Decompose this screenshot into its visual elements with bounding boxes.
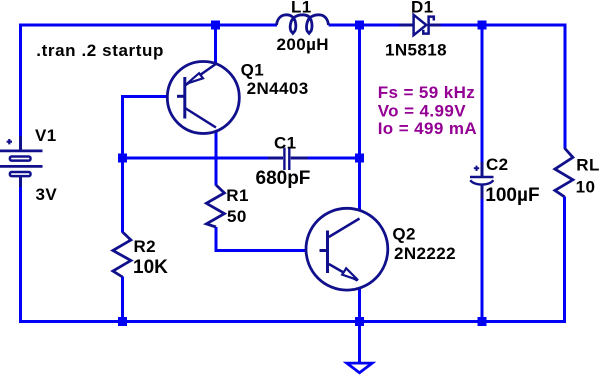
transistor Q2 (306, 208, 388, 290)
svg-text:200µH: 200µH (277, 35, 329, 54)
wire top rail right segment with right corner down to RL (439, 25, 565, 149)
svg-text:Vo = 4.99V: Vo = 4.99V (378, 102, 467, 121)
junction at Q1 emitter / top rail (211, 21, 220, 30)
battery V1 (0, 136, 43, 187)
diode D1 (400, 15, 441, 35)
svg-text:.tran .2 startup: .tran .2 startup (36, 41, 164, 60)
wire bottom rail (19, 320, 566, 323)
svg-text:Fs = 59 kHz: Fs = 59 kHz (378, 83, 475, 102)
junction at D1 cathode / C2 top (478, 21, 487, 30)
wire Q1 emitter to top rail (214, 25, 217, 65)
svg-text:10K: 10K (133, 257, 168, 278)
svg-text:V1: V1 (35, 126, 57, 145)
wire C2 branch lower (481, 198, 484, 322)
wire top rail between L1 and D1 (329, 24, 402, 27)
wire Q2 emitter down to bottom rail (358, 281, 361, 322)
svg-text:1N5818: 1N5818 (385, 41, 447, 60)
wire C2 branch upper (481, 25, 484, 163)
capacitor C2 (470, 162, 494, 199)
svg-text:D1: D1 (411, 0, 434, 17)
wire top rail left segment with left corner (21, 25, 278, 137)
svg-text:L1: L1 (291, 0, 312, 17)
svg-text:2N4403: 2N4403 (247, 79, 309, 98)
inductor L1 (277, 15, 329, 34)
junction at C2 bottom / bottom rail (478, 317, 487, 326)
svg-text:100µF: 100µF (485, 185, 539, 206)
junction at C1 right / switch node (355, 154, 364, 163)
wire switch node vertical L1/D1 to Q2 collector (358, 25, 361, 219)
svg-text:Q1: Q1 (241, 61, 264, 80)
svg-text:Io = 499 mA: Io = 499 mA (378, 119, 477, 138)
svg-text:C2: C2 (486, 155, 509, 174)
svg-text:R2: R2 (134, 237, 157, 256)
wire right branch below RL (563, 197, 566, 322)
svg-text:C1: C1 (274, 134, 297, 153)
transistor Q1 (167, 62, 239, 134)
wire left vertical below battery (19, 186, 22, 323)
wire Q1 collector down to R1 (215, 127, 218, 186)
junction at switch node / top rail (355, 21, 364, 30)
junction at R2 bottom / bottom rail (118, 317, 127, 326)
capacitor C1 (268, 148, 308, 171)
resistor R1 (206, 185, 224, 227)
wire R2 bottom to ground rail (121, 277, 124, 322)
svg-text:2N2222: 2N2222 (394, 244, 456, 263)
wire R1 bottom elbow to Q2 base (216, 227, 321, 251)
svg-text:10: 10 (576, 178, 596, 197)
svg-text:R1: R1 (226, 186, 249, 205)
resistor RL (555, 148, 573, 197)
svg-text:50: 50 (227, 207, 247, 226)
wire middle rail left of C1 (123, 157, 269, 160)
svg-text:3V: 3V (36, 185, 58, 204)
svg-text:RL: RL (576, 156, 599, 175)
resistor R2 (113, 232, 131, 277)
svg-text:680pF: 680pF (256, 168, 311, 189)
wire middle rail right of C1 (307, 157, 360, 160)
ground (347, 363, 372, 373)
wire Q1 base to node A vertical down to R2 (123, 96, 179, 232)
junction at node A / middle rail left (118, 154, 127, 163)
svg-text:Q2: Q2 (392, 225, 415, 244)
wire ground stem (358, 322, 361, 364)
junction at Q2 emitter / bottom rail (355, 317, 364, 326)
